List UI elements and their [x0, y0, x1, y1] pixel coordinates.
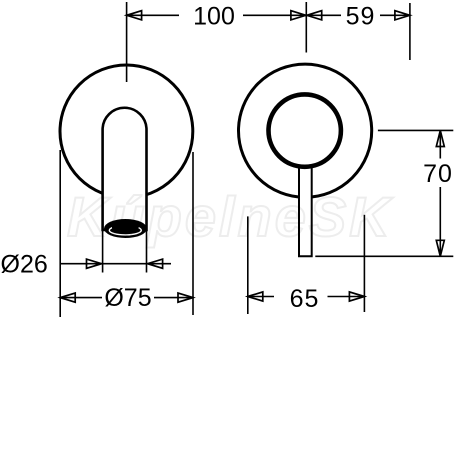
svg-text:65: 65	[290, 285, 320, 313]
svg-text:59: 59	[346, 3, 376, 31]
svg-text:KúpelneSK: KúpelneSK	[67, 185, 393, 248]
svg-text:Ø75: Ø75	[104, 284, 151, 312]
svg-text:100: 100	[193, 3, 235, 31]
svg-text:Ø26: Ø26	[1, 251, 48, 279]
svg-text:70: 70	[423, 160, 453, 188]
